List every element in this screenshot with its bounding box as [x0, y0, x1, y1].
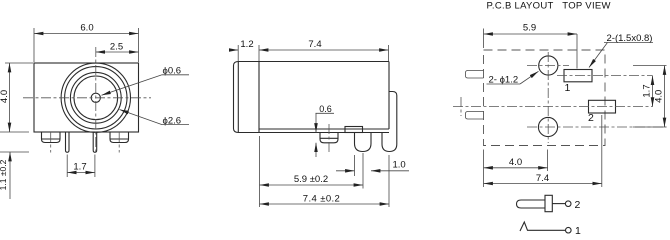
vertical centerline [95, 47, 97, 153]
svg-text:5.9: 5.9 [523, 23, 536, 34]
svg-text:7.4: 7.4 [536, 173, 549, 184]
slot1 centerline [557, 75, 653, 77]
side body bottom outer [259, 132, 389, 134]
leader phi0.6 [102, 75, 163, 96]
svg-text:0.6: 0.6 [319, 104, 332, 114]
svg-text:1.7: 1.7 [73, 162, 86, 173]
pcb outline dashed [484, 50, 606, 146]
left foot chord [42, 138, 60, 140]
svg-text:1.1 ±0.2: 1.1 ±0.2 [0, 159, 8, 190]
label phi2.6 underline [162, 124, 189, 126]
leader slots [589, 43, 608, 68]
extension hole2 right [633, 126, 667, 128]
extension line right [388, 45, 390, 61]
svg-text:2: 2 [575, 199, 581, 211]
contact tab [345, 127, 363, 133]
dimension 0.6 lower arrow [315, 143, 317, 157]
dimension 1.0 left arrow [336, 170, 355, 172]
hole1 horizontal centerline [527, 65, 569, 67]
bump chord [321, 137, 338, 139]
axis cross vertical [460, 97, 462, 116]
extension line top [5, 62, 33, 64]
svg-text:4.0: 4.0 [509, 157, 522, 168]
extension line right [138, 28, 140, 62]
hole2 horizontal centerline [527, 126, 667, 128]
dimension 6.0 line [34, 33, 139, 35]
label holes underline [487, 83, 521, 85]
side rear lug [382, 92, 397, 152]
svg-text:7.4 ±0.2: 7.4 ±0.2 [303, 194, 340, 205]
leader holes [520, 71, 539, 84]
svg-text:6.0: 6.0 [80, 23, 93, 34]
dimension 4.0B line [484, 167, 548, 169]
svg-text:2.5: 2.5 [110, 42, 123, 53]
right foot chord [111, 138, 129, 140]
pcb left tab 1 [466, 71, 484, 79]
svg-text:1: 1 [565, 82, 571, 94]
extension slot2 center [601, 115, 603, 187]
slot 2 [589, 100, 616, 113]
svg-text:7.4: 7.4 [308, 39, 321, 50]
barrel outer circle [61, 63, 130, 132]
svg-text:4.0: 4.0 [0, 90, 10, 103]
pin symbol 1 terminal [566, 227, 572, 233]
extension line flange low [259, 136, 261, 207]
side pin 1 [355, 133, 372, 152]
side body bottom inner [259, 128, 389, 130]
pin symbol 2 lead [552, 203, 565, 205]
label phi0.6 underline [162, 74, 189, 76]
extension slot1 center [576, 34, 578, 69]
phi0.6 center pin circle [91, 93, 100, 102]
hole 2 [538, 117, 557, 136]
extension pcb left bottom [483, 150, 485, 188]
bump centerline [328, 124, 330, 153]
horizontal centerline [23, 97, 151, 99]
label slots underline [604, 42, 653, 44]
extension line right pin [94, 155, 96, 178]
dimension 2.5 line [96, 51, 139, 53]
dimension 7.4L line [260, 203, 390, 205]
center pin bump [320, 133, 338, 143]
extension line flange [258, 45, 260, 61]
extension line pin1 left [354, 155, 356, 176]
phi2.6 circle [74, 76, 118, 120]
right pin [93, 132, 97, 152]
dimension 1.0 right arrow [371, 170, 409, 172]
left mounting foot [42, 132, 61, 143]
dimension 1.1 arrow [9, 152, 11, 199]
holes vertical centerline [547, 52, 549, 143]
side body right [388, 62, 390, 130]
pin symbol 2 terminal [565, 201, 571, 207]
dimension 7.4B line [484, 183, 602, 185]
barrel rim line [237, 62, 239, 132]
side body top [259, 61, 389, 63]
extension line body right [388, 155, 390, 207]
extension holes center bottom [547, 150, 549, 172]
side view barrel [234, 62, 260, 133]
leader phi2.6 [120, 110, 163, 125]
extension line pin1 center [362, 153, 364, 189]
pcb left tab 2 [466, 112, 484, 120]
extension line left [33, 28, 35, 62]
flange line [258, 62, 260, 133]
extension line rim [237, 45, 239, 61]
extension line pin bottom [0, 151, 29, 153]
svg-text:1.0: 1.0 [393, 160, 406, 171]
svg-text:P.C.B LAYOUT TOP VIEW: P.C.B LAYOUT TOP VIEW [487, 0, 611, 11]
dimension 0.6 underline [316, 112, 335, 114]
hole 1 [539, 56, 558, 75]
front view body [34, 63, 139, 132]
slot 1 [564, 70, 592, 82]
dimension 1.7 line [67, 172, 95, 174]
inner circle [70, 72, 121, 123]
extension hole1 right [633, 65, 667, 67]
svg-text:1.7: 1.7 [642, 84, 653, 97]
dimension 0.6 upper arrow [315, 113, 317, 132]
dimension 7.4 line [259, 49, 389, 51]
right foot centerline [118, 132, 120, 153]
dimension 5.9 pcb line [484, 33, 578, 35]
svg-text:4.0: 4.0 [654, 90, 665, 103]
dimension 1.2 arrow [229, 49, 238, 51]
extension pcb left top [483, 29, 485, 49]
extension line left pin [66, 155, 68, 178]
svg-text:5.9 ±0.2: 5.9 ±0.2 [294, 174, 328, 185]
pin symbol 1 spring [520, 222, 565, 231]
extension line body bottom [0, 131, 29, 133]
pin symbol 2 collar [545, 195, 552, 211]
slot2 centerline [453, 106, 653, 108]
dimension 1.7 line [652, 76, 654, 107]
dimension 4.0R line [664, 66, 666, 128]
svg-text:1.2: 1.2 [240, 39, 253, 50]
left foot centerline [50, 132, 52, 153]
pin symbol 2 body [517, 200, 546, 208]
dimension 4.0 line [9, 63, 11, 132]
right mounting foot [110, 132, 129, 143]
svg-text:1: 1 [575, 225, 581, 234]
svg-text:2: 2 [588, 112, 594, 124]
dimension 5.9 line [260, 184, 364, 186]
left pin [66, 132, 70, 152]
barrel ring circle [65, 67, 127, 129]
